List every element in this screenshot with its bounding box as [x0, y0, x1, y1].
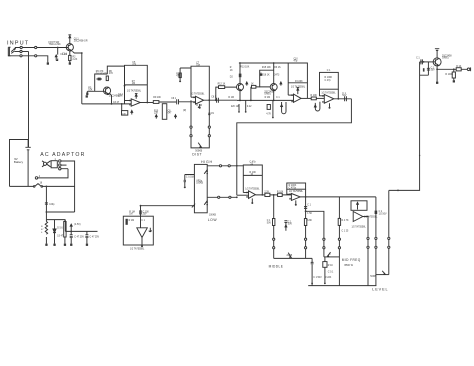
- resistor R6: [106, 76, 108, 81]
- capacitor C5 feedback: [125, 65, 148, 102]
- jack ring contact leaf: [11, 51, 15, 54]
- svg-text:50V: 50V: [267, 222, 272, 224]
- svg-text:2473: 2473: [274, 75, 280, 77]
- svg-text:1/2 TA75558L: 1/2 TA75558L: [289, 190, 304, 193]
- resistor R11 input branch: [180, 68, 191, 80]
- vref arrow: [280, 82, 282, 86]
- wire emitter: [436, 66, 438, 82]
- svg-text:D1 1S2473: D1 1S2473: [96, 73, 108, 75]
- pot VR5 wiper leg: [388, 190, 390, 274]
- pot VR5 bottom: [376, 274, 389, 276]
- resistor R5 base to ground: [86, 91, 88, 92]
- vref source arrow: [70, 224, 72, 231]
- capacitor branch: [184, 175, 195, 187]
- capacitor to vref loop: [282, 102, 286, 114]
- capacitor feedback box: [288, 63, 307, 98]
- svg-text:1/2 TA75558L: 1/2 TA75558L: [321, 92, 336, 95]
- capacitor electrolytic: [70, 231, 72, 243]
- svg-text:2.2K: 2.2K: [264, 192, 269, 194]
- wire U5 out: [363, 217, 368, 286]
- wiper arrow: [327, 252, 330, 256]
- corner into inverting input: [125, 100, 132, 102]
- capacitor 100p: [45, 203, 48, 204]
- svg-text:1/2 TA75558L: 1/2 TA75558L: [352, 225, 367, 228]
- wire down into buffer: [140, 206, 142, 228]
- resistor feedback box: [320, 72, 339, 89]
- wire out: [300, 196, 376, 198]
- rail over clippers: [239, 63, 288, 84]
- transistor Q1: [66, 44, 73, 51]
- wire Q1 collector to 9V: [69, 36, 71, 43]
- resistor R9: [153, 101, 159, 104]
- resistor hang: [238, 104, 240, 111]
- wiper arrow high: [204, 170, 207, 174]
- svg-text:C3 47: C3 47: [113, 102, 120, 104]
- rail 2: [65, 230, 97, 232]
- ground: [86, 95, 88, 97]
- transistor Q4: [237, 84, 244, 91]
- svg-text:25V: 25V: [143, 214, 148, 216]
- capacitor on leg: [375, 211, 378, 214]
- svg-text:TSW-A 2SK: TSW-A 2SK: [49, 43, 62, 46]
- pot VR5 LEVEL top leg: [375, 197, 377, 286]
- capacitor series C6: [179, 101, 196, 103]
- svg-text:D3 1S: D3 1S: [274, 67, 281, 69]
- svg-text:C 470p: C 470p: [289, 187, 297, 189]
- wire battery feed down: [28, 52, 30, 148]
- resistor hang: [272, 100, 274, 117]
- pot VR1 wiper arrow: [198, 143, 201, 148]
- capacitor hang: [245, 100, 247, 111]
- svg-text:2SC2458-GR: 2SC2458-GR: [74, 41, 88, 43]
- svg-text:2: 2: [330, 253, 332, 255]
- resistor R18: [311, 97, 316, 100]
- resistor R14 base Q5: [251, 87, 270, 101]
- svg-text:50V: 50V: [288, 224, 293, 226]
- resistor on left edge: [338, 218, 340, 225]
- svg-text:R: R: [41, 226, 43, 228]
- capacitor C12: [345, 96, 347, 101]
- svg-text:47K: 47K: [109, 73, 114, 75]
- svg-text:R 10K: R 10K: [311, 95, 318, 97]
- ground: [453, 80, 455, 82]
- contact circle: [35, 177, 37, 179]
- op-amp U2: [196, 96, 204, 104]
- wire Q2 base row: [87, 90, 103, 92]
- node: [124, 85, 126, 87]
- ground under U3B: [329, 103, 331, 107]
- rail: [46, 219, 65, 221]
- capacitor vref branch: [284, 221, 287, 231]
- svg-text:0: 0: [41, 232, 43, 234]
- wire battery negative w/ switch: [10, 184, 75, 187]
- diode feedback arrow: [135, 94, 138, 99]
- svg-text:R 1K: R 1K: [456, 66, 462, 68]
- node input marks: [129, 94, 323, 199]
- svg-text:1/2 50V: 1/2 50V: [379, 213, 387, 215]
- svg-text:LOW: LOW: [208, 218, 218, 222]
- box: [123, 216, 153, 245]
- svg-text:1/2 TA75558L: 1/2 TA75558L: [127, 90, 142, 93]
- svg-text:100p: 100p: [49, 204, 55, 206]
- svg-text:R16 1K: R16 1K: [262, 75, 270, 77]
- pot VR3 bottom: [274, 257, 312, 259]
- node: [111, 103, 113, 105]
- ground under U2: [199, 104, 201, 107]
- wire out: [255, 194, 291, 196]
- resistor: [265, 193, 270, 196]
- svg-text:10K: 10K: [88, 89, 93, 91]
- svg-text:MIDDLE: MIDDLE: [269, 265, 284, 269]
- svg-text:R 1K: R 1K: [328, 265, 334, 267]
- svg-text:R 10K: R 10K: [277, 192, 284, 194]
- svg-text:C 1: C 1: [141, 220, 145, 222]
- gyrator branch 2: [324, 257, 326, 284]
- svg-text:2SC2458-GR: 2SC2458-GR: [109, 96, 123, 98]
- wire high out: [207, 165, 243, 167]
- wire Q2 emitter: [110, 93, 112, 104]
- wire long feedback route: [237, 99, 352, 195]
- resistor feedback: [288, 82, 307, 84]
- wire pin1 to supply: [61, 161, 75, 212]
- svg-text:50V: 50V: [342, 95, 347, 97]
- wire pin2 stub: [61, 164, 67, 166]
- wire tip row: [15, 47, 66, 49]
- diode arrow: [297, 88, 300, 95]
- capacitor feedback box U4A: [243, 165, 262, 195]
- ground: [436, 82, 438, 84]
- svg-text:100KB: 100KB: [209, 215, 216, 217]
- svg-text:Battery: Battery: [14, 160, 24, 164]
- svg-text:C 1 25: C 1 25: [342, 231, 349, 233]
- svg-text:R 4.7K: R 4.7K: [342, 220, 349, 222]
- svg-text:1/2 TA75558L: 1/2 TA75558L: [190, 92, 205, 95]
- svg-text:R: R: [230, 67, 232, 69]
- ground under buffer: [141, 238, 143, 246]
- svg-text:C 47p: C 47p: [325, 80, 332, 82]
- contact circle: [35, 55, 37, 57]
- gyrator branch 1: [311, 258, 313, 285]
- resistor: [278, 193, 283, 196]
- pot VR2 body: [194, 164, 207, 212]
- network box Q5: [260, 70, 274, 87]
- AC jack: [42, 161, 51, 167]
- pot VR4 bottom: [324, 256, 340, 258]
- wire: [159, 101, 176, 103]
- svg-text:R 1M: R 1M: [265, 97, 271, 99]
- wire collector load: [124, 66, 126, 104]
- capacitor electrolytic 2: [86, 231, 88, 243]
- wire base feed: [216, 87, 237, 100]
- wire supply down: [45, 186, 47, 219]
- svg-text:GR(K): GR(K): [442, 58, 449, 60]
- supply ticks: [435, 49, 439, 58]
- wire out: [334, 98, 352, 100]
- svg-text:C 1: C 1: [276, 97, 280, 99]
- svg-text:100KB: 100KB: [196, 183, 203, 185]
- diode D1 bias network: [95, 74, 108, 91]
- battery B1: [25, 140, 30, 187]
- svg-text:R 1M: R 1M: [228, 97, 234, 99]
- wire ring row: [15, 51, 29, 53]
- wire down to stage 2: [81, 53, 83, 104]
- arrow into box: [192, 205, 195, 208]
- output jack J2: [467, 68, 470, 71]
- vref arrow: [55, 55, 57, 61]
- resistor inside: [126, 219, 128, 225]
- contact circle: [20, 46, 22, 48]
- svg-text:C 0.1: C 0.1: [328, 272, 334, 274]
- rail bottom: [308, 285, 376, 287]
- capacitor on leg: [304, 207, 307, 209]
- resistor shunt: [453, 69, 455, 80]
- svg-text:C 0.018: C 0.018: [186, 177, 195, 179]
- ground: [69, 62, 71, 64]
- svg-text:10K: 10K: [122, 113, 126, 115]
- svg-text:50KB: 50KB: [370, 276, 376, 278]
- svg-text:4.7K: 4.7K: [266, 113, 271, 115]
- jack contacts: [59, 160, 61, 162]
- svg-text:47K: 47K: [176, 76, 181, 78]
- svg-text:INPUT: INPUT: [7, 40, 29, 46]
- svg-text:047: 047: [168, 113, 173, 115]
- resistor R12: [219, 86, 225, 89]
- svg-text:R 22K: R 22K: [325, 277, 332, 279]
- svg-text:C 1: C 1: [327, 70, 331, 72]
- wire main signal row: [82, 103, 132, 105]
- svg-text:0.22: 0.22: [247, 106, 252, 108]
- svg-text:C9: C9: [211, 113, 215, 115]
- box left edge: [338, 197, 340, 286]
- op-amp U5: [353, 212, 363, 222]
- op-amp U1: [131, 99, 140, 106]
- diode D2: [239, 74, 242, 78]
- resistor R1 bias to vref: [56, 48, 58, 61]
- svg-text:1S 47: 1S 47: [57, 235, 64, 237]
- svg-text:R 1M: R 1M: [196, 105, 202, 107]
- svg-text:R12 1K: R12 1K: [218, 84, 226, 86]
- diode zener: [54, 220, 56, 244]
- svg-text:1/2 TA75558L: 1/2 TA75558L: [291, 85, 306, 88]
- svg-text:(4.5V): (4.5V): [74, 224, 80, 226]
- svg-text:B50K W: B50K W: [345, 265, 354, 267]
- wire main row: [237, 99, 294, 101]
- svg-text:1M: 1M: [129, 214, 132, 216]
- svg-text:D2: D2: [230, 77, 234, 79]
- resistor R8 to vref: [121, 104, 123, 111]
- wire Q4 emitter down: [239, 91, 241, 101]
- input jack J1: [8, 47, 10, 56]
- transistor Q5: [270, 84, 277, 91]
- resistor R out: [456, 68, 461, 71]
- svg-text:47: 47: [41, 229, 44, 231]
- svg-text:C 1: C 1: [416, 58, 420, 60]
- pot VR1 DIST legs: [191, 100, 209, 148]
- svg-text:R9 10K: R9 10K: [153, 97, 161, 99]
- resistor R41: [45, 220, 47, 244]
- battery box: [10, 140, 29, 187]
- svg-text:1 50: 1 50: [307, 213, 312, 215]
- op-amp U6 buffer pointing down: [137, 228, 148, 238]
- wire: [316, 97, 324, 99]
- op-amp U3A: [294, 94, 302, 102]
- contact circle: [35, 46, 37, 48]
- svg-text:C2 1: C2 1: [62, 54, 68, 56]
- svg-text:1M: 1M: [132, 83, 135, 85]
- jack tip contact leaf: [11, 48, 15, 51]
- wire out: [301, 97, 311, 99]
- svg-text:R 100K: R 100K: [445, 74, 453, 76]
- capacitor to vref loop: [315, 102, 320, 111]
- wiper arrow low: [204, 201, 207, 205]
- svg-text:47p: 47p: [294, 60, 299, 62]
- wire U2 out: [204, 99, 237, 101]
- pot VR3 MIDDLE left leg: [273, 195, 275, 259]
- wire branch to pot: [306, 211, 324, 257]
- svg-text:1K: 1K: [230, 70, 233, 72]
- wire sleeve row: [8, 56, 48, 63]
- wire pin3: [38, 169, 68, 178]
- 9V supply arrow: [68, 35, 71, 38]
- wire Q5 emitter: [273, 91, 275, 101]
- svg-text:C 47 25V: C 47 25V: [90, 236, 100, 238]
- wire U1 output: [140, 102, 153, 104]
- node emitter junction: [81, 52, 83, 54]
- wire level to output: [389, 62, 420, 191]
- svg-text:R 1M: R 1M: [129, 220, 135, 222]
- svg-text:1/2 TA75558L: 1/2 TA75558L: [130, 248, 145, 251]
- svg-text:22K 1M: 22K 1M: [231, 106, 239, 108]
- wire low out: [207, 196, 237, 198]
- svg-text:6.8K: 6.8K: [307, 220, 312, 222]
- wiper arrow: [382, 271, 385, 275]
- resistor on leg: [304, 219, 306, 226]
- resistor feedback U4A: [243, 174, 262, 176]
- svg-text:50V: 50V: [431, 69, 436, 71]
- node base junction: [57, 47, 59, 49]
- svg-text:AC ADAPTOR: AC ADAPTOR: [40, 152, 85, 158]
- vref arrow: [155, 115, 157, 119]
- svg-text:MID FREQ: MID FREQ: [342, 258, 361, 262]
- vref arrow: [131, 111, 133, 115]
- capacitor C7 feedback: [191, 66, 209, 100]
- wiper arrow: [288, 253, 291, 258]
- ground: [47, 62, 49, 64]
- capacitor C8: [217, 98, 219, 103]
- resistor R2 emitter: [69, 51, 71, 63]
- wire output: [437, 68, 467, 70]
- vref arrow: [175, 115, 177, 119]
- wire Q2 collector top: [107, 66, 124, 74]
- svg-text:LEVEL: LEVEL: [372, 287, 388, 291]
- svg-text:2.2K: 2.2K: [73, 59, 78, 61]
- contact circle: [20, 55, 22, 57]
- wire vref to stack: [141, 205, 195, 207]
- svg-text:20KB: 20KB: [287, 255, 293, 257]
- svg-text:C 47 25V: C 47 25V: [74, 236, 84, 238]
- svg-text:DIST: DIST: [192, 152, 202, 156]
- op-amp U4A: [249, 191, 256, 199]
- resistor R10 tall to vref: [162, 104, 167, 120]
- ground: [45, 244, 47, 246]
- corner into inverting input: [243, 192, 248, 194]
- contact circle: [20, 50, 22, 52]
- wire cross: [46, 211, 74, 213]
- ground under U4A: [251, 198, 253, 202]
- ground under U4B: [295, 200, 297, 204]
- resistor: [64, 220, 66, 244]
- op-amp U4B: [291, 194, 300, 201]
- svg-text:D 5.6: D 5.6: [57, 227, 63, 229]
- transistor Q2: [103, 87, 110, 94]
- pot VR3 right leg: [305, 197, 307, 259]
- capacitor series base: [420, 61, 433, 63]
- svg-text:R 100K: R 100K: [295, 81, 303, 83]
- svg-text:1K: 1K: [251, 83, 254, 85]
- svg-text:1/2 TA75558L: 1/2 TA75558L: [245, 187, 260, 190]
- resistor R7 feedback: [125, 84, 148, 86]
- svg-text:C6 1: C6 1: [171, 98, 177, 100]
- wire Q1 emitter out: [72, 51, 81, 53]
- vref arrow: [246, 82, 248, 86]
- svg-text:R13 10K: R13 10K: [240, 67, 249, 69]
- svg-text:GR(K): GR(K): [264, 94, 271, 96]
- svg-text:C 1: C 1: [307, 204, 311, 206]
- svg-text:C 1 50V: C 1 50V: [313, 277, 322, 279]
- op-amp U3B: [324, 95, 334, 104]
- svg-text:(R): (R): [183, 110, 186, 112]
- feedback box U5: [351, 201, 367, 211]
- capacitor on right leg: [208, 113, 210, 114]
- svg-text:HIGH: HIGH: [201, 160, 213, 164]
- svg-text:R15 10K: R15 10K: [262, 67, 271, 69]
- capacitor parallel: [420, 62, 429, 75]
- transistor Q3: [433, 58, 441, 66]
- svg-text:18: 18: [40, 182, 43, 184]
- feedback box U4B: [287, 183, 306, 189]
